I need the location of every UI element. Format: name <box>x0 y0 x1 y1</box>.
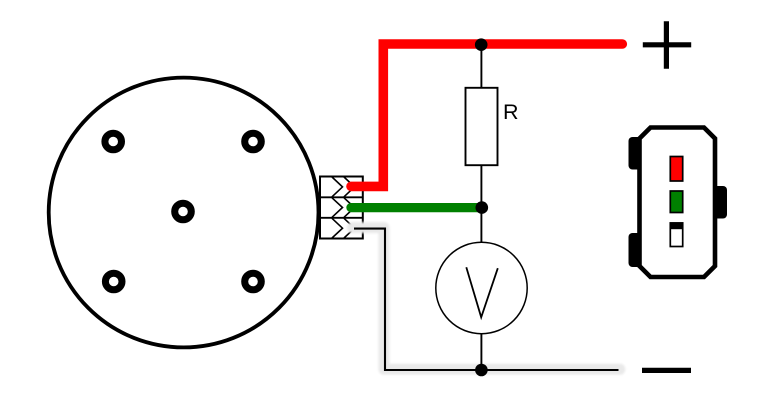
connector icon latch tab right <box>714 186 728 219</box>
wire resistor top lead <box>480 44 482 88</box>
minus terminal <box>642 368 691 373</box>
label R <box>503 100 519 124</box>
resistor R <box>466 88 498 165</box>
plus terminal <box>643 21 691 69</box>
connector J1 cell divider 1 <box>320 196 363 198</box>
node junction on ground wire <box>475 364 488 377</box>
connector pin 1 chevrons (red) <box>332 177 355 197</box>
wire resistor bottom lead <box>480 165 482 207</box>
node junction on green wire <box>476 201 489 214</box>
wire voltmeter bottom lead <box>480 334 482 370</box>
sensor body (circle) <box>49 78 319 348</box>
mounting hole bottom-left <box>105 273 122 290</box>
connector icon green pin <box>670 191 682 213</box>
connector J1 cell divider 2 <box>320 217 363 219</box>
connector J1 body <box>320 177 363 239</box>
mounting hole top-left <box>105 133 122 150</box>
wire red (supply) <box>351 44 622 186</box>
mounting hole top-right <box>245 133 262 150</box>
connector pin 2 chevrons (green) <box>332 198 355 218</box>
wire voltmeter top lead <box>480 208 482 243</box>
wire gray (ground) thick <box>353 228 620 370</box>
wire green (signal) <box>351 203 482 212</box>
mounting hole bottom-right <box>245 273 262 290</box>
wire gray center black line <box>354 229 619 370</box>
connector icon latch tab left upper <box>629 137 642 170</box>
voltmeter V <box>436 242 527 333</box>
connector icon red pin <box>670 157 682 182</box>
svg-text:R: R <box>503 100 519 124</box>
node junction on red wire <box>475 38 488 51</box>
mounting hole center <box>175 203 192 220</box>
connector pin 3 chevrons (gray) <box>332 218 355 238</box>
connector icon body <box>640 128 716 278</box>
connector icon latch tab left lower <box>629 233 642 267</box>
connector icon white pin <box>670 222 684 246</box>
